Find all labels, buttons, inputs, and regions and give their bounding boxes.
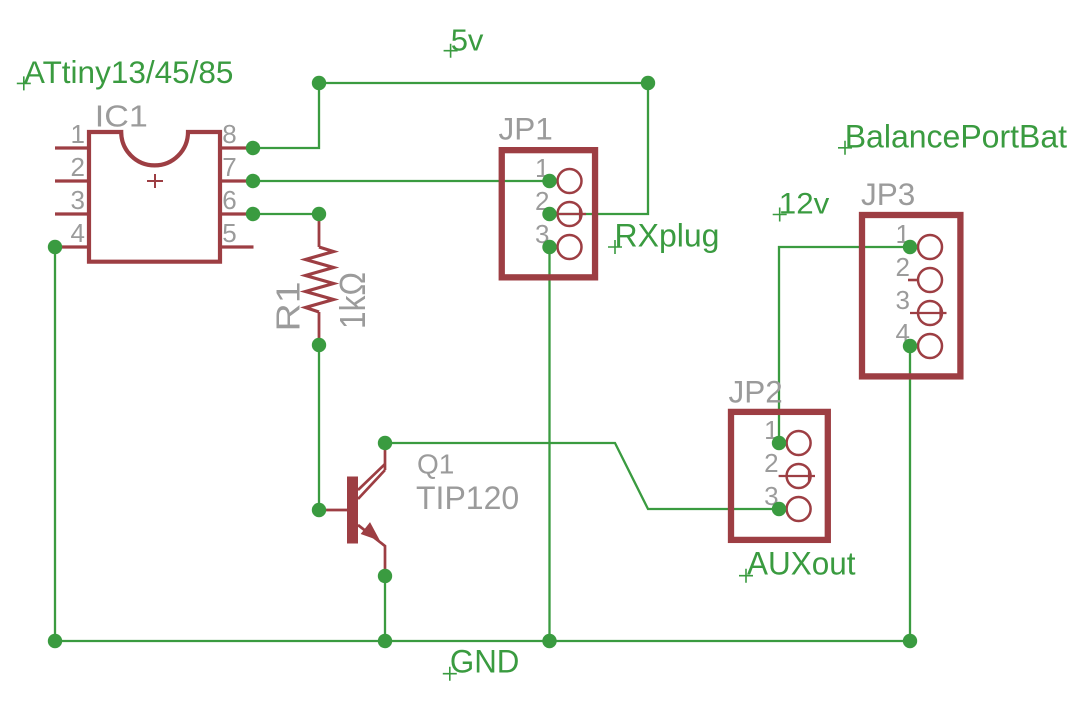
svg-text:3: 3 — [896, 285, 910, 315]
svg-text:TIP120: TIP120 — [416, 480, 519, 516]
IC1 pin 5 stub — [220, 245, 254, 248]
IC1 pin 8 stub — [220, 146, 254, 149]
node Q1 emitter — [378, 569, 392, 583]
net label ATtiny13/45/85 — [17, 54, 234, 90]
wire JP1 pin3 to GND — [548, 247, 550, 641]
node JP2 pin3 — [772, 502, 786, 516]
IC1 pin numbers right — [222, 119, 236, 248]
JP2 pin 2 stub + origin cross — [779, 470, 815, 482]
Q1 collector lead — [384, 443, 387, 470]
node GND right — [903, 634, 917, 648]
IC1 pin 2 stub — [55, 179, 89, 182]
JP2 pin numbers — [764, 415, 778, 511]
svg-text:JP2: JP2 — [729, 374, 783, 410]
transistor Q1 TIP120 — [319, 443, 385, 576]
JP3 pin 1 circle — [918, 235, 942, 259]
svg-text:2: 2 — [764, 448, 778, 478]
svg-text:1kΩ: 1kΩ — [332, 272, 373, 329]
node 5v right corner — [641, 76, 655, 90]
svg-text:1: 1 — [71, 119, 85, 149]
svg-text:8: 8 — [222, 119, 236, 149]
JP3 pin 4 circle — [918, 334, 942, 358]
node Q1 base — [312, 503, 326, 517]
wire pin7 to JP1 pin1 — [253, 180, 550, 182]
svg-text:Q1: Q1 — [417, 449, 454, 480]
resistor R1 zigzag — [306, 247, 334, 312]
JP3 pin 2 stub — [908, 279, 919, 282]
svg-text:AUXout: AUXout — [747, 546, 856, 582]
wire pin4 down left rail — [54, 247, 56, 641]
IC1 pin 3 stub — [55, 212, 89, 215]
svg-text:ATtiny13/45/85: ATtiny13/45/85 — [24, 54, 234, 90]
svg-text:RXplug: RXplug — [615, 218, 720, 254]
svg-text:R1: R1 — [270, 282, 307, 332]
wire 12v JP3 pin1 to JP2 pin1 — [779, 247, 910, 443]
svg-text:5: 5 — [222, 218, 236, 248]
node IC pin8 — [246, 141, 260, 155]
wire 5v right drop to JP1 pin2 — [550, 83, 649, 214]
JP1 pin 2 stub + origin cross — [550, 208, 587, 220]
connector JP1 box — [502, 150, 595, 277]
IC1 pin 1 stub — [55, 146, 89, 149]
node GND left — [48, 634, 62, 648]
JP2 pin 1 circle — [787, 431, 811, 455]
node IC pin7 — [246, 174, 260, 188]
svg-text:GND: GND — [450, 644, 520, 680]
net label 12v — [773, 188, 830, 222]
JP1 pin 3 circle — [558, 235, 582, 259]
connector JP2 box — [731, 412, 828, 540]
JP3 pin 3 circle — [918, 301, 942, 325]
IC1 pin numbers left — [71, 119, 85, 248]
wire pin6 to R1 top — [253, 213, 319, 215]
svg-text:JP1: JP1 — [499, 111, 553, 147]
node 5v left corner — [312, 76, 326, 90]
Q1 emitter arrow — [362, 524, 379, 540]
Q1 bar — [347, 477, 358, 544]
net label BalancePortBat — [838, 119, 1067, 155]
IC1 origin cross — [147, 174, 163, 188]
node JP1 pin3 — [542, 240, 556, 254]
JP1 pin numbers — [535, 153, 549, 249]
svg-text:BalancePortBat: BalancePortBat — [845, 119, 1067, 155]
IC1 pin 6 stub — [220, 212, 254, 215]
svg-text:3: 3 — [71, 185, 85, 215]
net label RXplug — [608, 218, 719, 254]
net label AUXout — [739, 546, 856, 583]
JP2 pin 2 circle — [787, 464, 811, 488]
wire GND horizontal rail — [55, 640, 910, 642]
node JP3 pin1 — [903, 240, 917, 254]
net label 5v — [444, 22, 484, 57]
JP1 pin 1 circle — [558, 169, 582, 193]
wire R1 bottom to Q1 base — [318, 345, 320, 510]
svg-text:2: 2 — [71, 152, 85, 182]
node R1 bottom — [312, 338, 326, 352]
svg-text:5v: 5v — [451, 22, 484, 57]
IC1 pin 7 stub — [220, 179, 254, 182]
Q1 collector double diagonal — [358, 464, 385, 499]
wire JP3 pin4 to GND — [909, 346, 911, 641]
Q1 base lead — [319, 509, 347, 512]
connector JP3 box — [862, 215, 960, 376]
JP3 pin numbers — [896, 219, 910, 348]
JP2 pin 3 circle — [787, 497, 811, 521]
wire 5v left drop to pin8 — [253, 83, 319, 148]
Q1 emitter diagonal — [358, 525, 385, 576]
wire 5v top horizontal — [319, 82, 648, 84]
svg-text:JP3: JP3 — [861, 176, 915, 212]
node JP1 pin2 — [542, 207, 556, 221]
node R1 top — [312, 207, 326, 221]
svg-text:IC1: IC1 — [95, 98, 148, 133]
wire Q1 emitter to GND — [384, 576, 386, 641]
resistor R1 leads — [318, 214, 321, 345]
svg-text:4: 4 — [71, 218, 85, 248]
wire Q1 collector to JP2 pin3 — [385, 443, 779, 509]
node GND Q1 — [378, 634, 392, 648]
JP3 pin 2 circle — [918, 268, 942, 292]
node JP1 pin1 — [542, 174, 556, 188]
node IC pin4 — [48, 240, 62, 254]
IC1 pin 4 stub — [55, 245, 89, 248]
svg-text:7: 7 — [222, 152, 236, 182]
svg-text:2: 2 — [896, 252, 910, 282]
net label GND — [443, 644, 520, 681]
IC U1 ATtiny body — [89, 132, 220, 262]
node GND JP1 — [542, 634, 556, 648]
node Q1 collector — [378, 436, 392, 450]
svg-text:6: 6 — [222, 185, 236, 215]
node IC pin6 — [246, 207, 260, 221]
JP1 pin 2 circle — [558, 202, 582, 226]
node JP3 pin4 — [903, 339, 917, 353]
svg-text:12v: 12v — [779, 188, 830, 221]
node JP2 pin1 — [772, 436, 786, 450]
JP3 pin 3 stub + origin cross — [910, 307, 947, 319]
